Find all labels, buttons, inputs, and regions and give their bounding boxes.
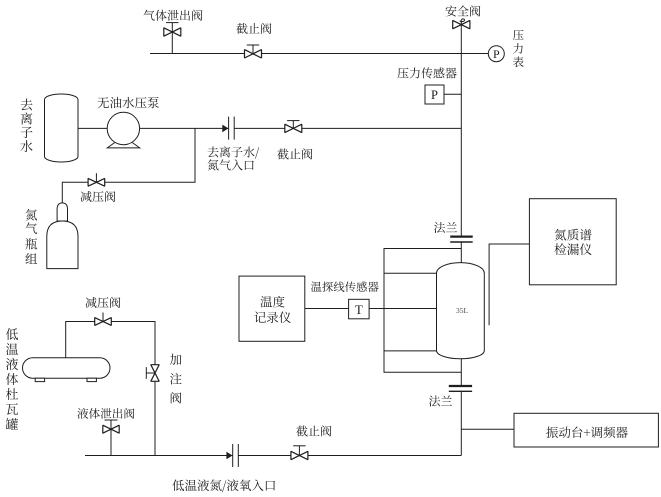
label 压力表	[513, 30, 524, 67]
dewar foot left	[35, 378, 44, 381]
nitrogen cylinder neck	[57, 203, 67, 221]
label 振动台+调频器	[546, 427, 628, 439]
pressure gauge P circle 压力表	[488, 46, 504, 62]
sniffer probe line to leak detector	[489, 244, 529, 325]
label 氮气瓶组	[25, 209, 37, 264]
label 温探线传感器	[311, 281, 379, 292]
label 压力传感器	[397, 67, 456, 78]
wire vertical below vessel through bottom flange to bottom header	[460, 358, 462, 385]
label 减压阀 dewar	[86, 297, 121, 308]
sensor box T 温探线传感器	[349, 299, 370, 319]
wire temperature sensor line into vessel	[305, 308, 437, 310]
valve 减压阀 nitrogen pressure reducing valve	[88, 173, 105, 186]
label 气体泄出阀	[143, 10, 202, 21]
tank 去离子水 deionized water tank	[45, 94, 79, 162]
wire main vertical line: safety valve down to top flange	[460, 29, 462, 236]
box 振动台+调频器 shaker	[514, 413, 658, 447]
label 记录仪 line2	[254, 312, 291, 323]
svg-text:T: T	[355, 302, 363, 317]
wire fill line down to bottom header	[154, 381, 156, 455]
manifold bracket left of vessel	[384, 249, 461, 373]
svg-text:P: P	[493, 47, 500, 61]
label 减压阀 nitrogen	[81, 191, 116, 202]
safety valve 安全阀 with spring symbol	[453, 19, 470, 29]
label 检漏仪 line2	[554, 243, 591, 255]
label 截止阀 middle	[277, 148, 312, 159]
svg-text:P: P	[431, 88, 438, 102]
valve 减压阀 dewar pressure reducing valve	[95, 313, 112, 326]
box 温度记录仪 temperature recorder	[239, 276, 305, 341]
valve 截止阀 bottom stop valve with T-handle	[291, 446, 308, 460]
label 去离子水/氮气入口 line2	[208, 159, 254, 170]
wire main vertical: below top flange to vessel top	[460, 242, 462, 263]
svg-text:35L: 35L	[456, 306, 469, 315]
label 氮质谱 line1	[555, 229, 592, 241]
wire pump discharge line to main vertical	[77, 127, 461, 129]
label 温度 line1	[260, 296, 284, 308]
valve 截止阀 top stop valve on header with T-handle	[245, 45, 262, 58]
label 加注阀	[170, 354, 182, 404]
label 去离子水/氮气入口 line1	[208, 146, 260, 158]
label 截止阀 top	[236, 23, 271, 34]
nitrogen cylinder 氮气瓶组 body	[47, 221, 78, 269]
label 安全阀	[446, 5, 481, 16]
valve 加注阀 fill valve vertical with left T-handle	[146, 365, 159, 382]
label 截止阀 bottom	[296, 425, 331, 436]
label 去离子水	[20, 99, 32, 152]
connector 去离子水/氮气入口 inlet: arrow + double bars	[222, 117, 234, 140]
wire recorder to T sensor	[305, 308, 349, 310]
label 低温液体杜瓦罐	[6, 328, 18, 430]
wire branch down from pump line to nitrogen regulator line	[62, 128, 195, 203]
valve 截止阀 middle stop valve with T-handle	[285, 121, 302, 133]
wire gas release valve stem down to header	[171, 23, 173, 54]
wire to shaker box	[461, 428, 514, 430]
wire bracket to vessel upper tap	[384, 272, 437, 274]
label 液体泄出阀	[77, 408, 134, 419]
dewar top feed line	[66, 322, 155, 365]
valve 液体泄出阀 liquid drain valve with T-handle	[103, 420, 119, 456]
vessel 35L cylinder	[437, 263, 485, 359]
valve 气体泄出阀 (gas release valve) with T-handle	[164, 23, 181, 37]
label 法兰 top	[434, 222, 457, 233]
wire top header line from gas-release branch to pressure gauge	[150, 53, 488, 55]
pressure sensor box P 压力传感器	[425, 85, 444, 104]
box 氮质谱检漏仪 leak detector	[529, 199, 616, 285]
wire pressure sensor to main vertical	[444, 93, 461, 95]
connector bottom inlet: arrow + double bars	[226, 444, 238, 467]
label 低温液氮/液氧入口	[172, 479, 275, 492]
dewar vessel 低温液体杜瓦罐 capsule	[23, 358, 111, 378]
flange 法兰 bottom pair of bars	[449, 386, 472, 391]
label 法兰 bottom	[429, 395, 452, 406]
flange 法兰 top pair of bars	[450, 237, 473, 242]
pump 无油水压泵 circle with base	[107, 112, 140, 148]
label 无油水压泵	[97, 97, 159, 108]
dewar foot right	[87, 378, 96, 381]
wire bracket to vessel lower tap	[384, 350, 437, 352]
wire bottom header line 低温液氮/液氧入口	[85, 455, 461, 457]
